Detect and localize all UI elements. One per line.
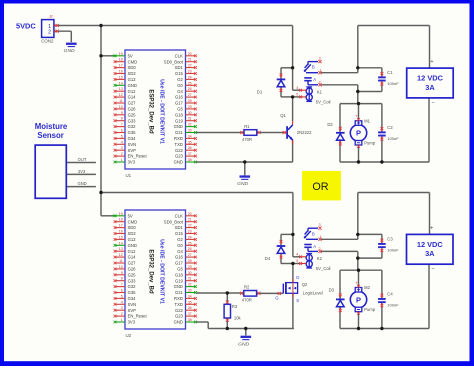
svg-text:SD1: SD1 xyxy=(175,65,184,70)
svg-text:G16: G16 xyxy=(175,95,184,100)
svg-text:21: 21 xyxy=(188,218,192,222)
svg-text:20: 20 xyxy=(188,212,192,216)
svg-text:27: 27 xyxy=(188,253,192,257)
svg-text:11: 11 xyxy=(119,259,123,263)
svg-text:22: 22 xyxy=(188,224,192,228)
svg-text:23: 23 xyxy=(188,70,192,74)
svg-text:−: − xyxy=(432,100,435,106)
svg-text:12 VDC: 12 VDC xyxy=(417,240,444,249)
svg-text:TXD: TXD xyxy=(175,142,183,147)
svg-text:+: + xyxy=(430,225,433,231)
svg-text:38: 38 xyxy=(188,158,192,162)
svg-text:Q1: Q1 xyxy=(280,113,286,118)
svg-text:6: 6 xyxy=(121,129,123,133)
svg-text:26: 26 xyxy=(188,247,192,251)
svg-text:9: 9 xyxy=(121,111,123,115)
svg-text:G13: G13 xyxy=(128,77,137,82)
svg-text:LogicLevel: LogicLevel xyxy=(303,291,323,296)
svg-text:G16: G16 xyxy=(175,255,184,260)
svg-text:B: B xyxy=(312,231,315,236)
svg-text:21: 21 xyxy=(188,58,192,62)
svg-text:13: 13 xyxy=(119,87,123,91)
svg-text:S: S xyxy=(296,298,299,303)
svg-text:G26: G26 xyxy=(128,107,137,112)
svg-text:G0: G0 xyxy=(177,243,183,248)
svg-text:G26: G26 xyxy=(128,267,137,272)
svg-text:R2: R2 xyxy=(244,285,250,290)
svg-text:7: 7 xyxy=(121,283,123,287)
svg-text:GND: GND xyxy=(174,284,183,289)
svg-text:G23: G23 xyxy=(175,314,184,319)
svg-text:20: 20 xyxy=(188,52,192,56)
svg-text:GND: GND xyxy=(128,243,137,248)
svg-text:38: 38 xyxy=(188,318,192,322)
svg-text:R3: R3 xyxy=(232,304,238,309)
svg-text:SD0_Boot: SD0_Boot xyxy=(164,219,184,224)
svg-text:G22: G22 xyxy=(175,308,184,313)
svg-text:EN_Reset: EN_Reset xyxy=(128,154,148,159)
svg-text:Pump: Pump xyxy=(364,307,376,312)
svg-text:33: 33 xyxy=(188,289,192,293)
svg-text:3A: 3A xyxy=(425,83,435,92)
svg-text:1: 1 xyxy=(121,318,123,322)
svg-text:P: P xyxy=(356,295,361,304)
svg-text:100nF: 100nF xyxy=(387,81,399,86)
svg-text:2N2222: 2N2222 xyxy=(297,130,312,135)
svg-text:Moisture: Moisture xyxy=(35,122,68,131)
svg-text:27: 27 xyxy=(188,93,192,97)
svg-text:17: 17 xyxy=(119,224,123,228)
svg-text:G17: G17 xyxy=(175,101,184,106)
svg-text:SD0: SD0 xyxy=(128,225,137,230)
svg-text:14: 14 xyxy=(119,241,123,245)
svg-text:M1: M1 xyxy=(364,118,370,123)
svg-text:470R: 470R xyxy=(242,137,252,142)
svg-text:U1: U1 xyxy=(126,173,132,178)
svg-text:Sensor: Sensor xyxy=(37,131,63,140)
svg-text:12: 12 xyxy=(119,93,123,97)
svg-text:SD0: SD0 xyxy=(128,65,137,70)
svg-text:23: 23 xyxy=(188,230,192,234)
svg-text:3A: 3A xyxy=(425,249,435,258)
svg-text:4: 4 xyxy=(296,86,298,90)
svg-text:GND: GND xyxy=(174,124,183,129)
svg-text:C1: C1 xyxy=(387,70,393,75)
svg-text:5: 5 xyxy=(121,294,123,298)
svg-text:3: 3 xyxy=(319,223,321,227)
svg-text:4: 4 xyxy=(121,140,123,144)
svg-text:D: D xyxy=(296,275,299,280)
svg-text:36: 36 xyxy=(188,306,192,310)
svg-text:G0: G0 xyxy=(177,83,183,88)
svg-text:29: 29 xyxy=(188,105,192,109)
svg-text:G19: G19 xyxy=(175,278,184,283)
svg-text:G19: G19 xyxy=(175,118,184,123)
svg-text:31: 31 xyxy=(188,277,192,281)
svg-text:G5: G5 xyxy=(177,107,183,112)
svg-text:GND: GND xyxy=(77,181,86,186)
svg-text:100nF: 100nF xyxy=(387,248,399,253)
svg-text:SVP: SVP xyxy=(128,148,137,153)
svg-text:1: 1 xyxy=(320,68,322,72)
svg-text:16: 16 xyxy=(119,230,123,234)
svg-text:11: 11 xyxy=(119,99,123,103)
svg-text:G18: G18 xyxy=(175,272,184,277)
svg-text:G33: G33 xyxy=(128,278,137,283)
svg-text:18: 18 xyxy=(119,218,123,222)
svg-text:7: 7 xyxy=(121,123,123,127)
svg-text:G34: G34 xyxy=(128,296,137,301)
svg-text:24: 24 xyxy=(188,235,192,239)
svg-text:GND: GND xyxy=(128,83,137,88)
svg-text:K2: K2 xyxy=(317,256,323,261)
svg-text:29: 29 xyxy=(188,265,192,269)
svg-text:2: 2 xyxy=(319,247,321,251)
svg-text:33: 33 xyxy=(188,129,192,133)
svg-text:G15: G15 xyxy=(175,71,184,76)
svg-text:D4: D4 xyxy=(265,256,271,261)
svg-text:G18: G18 xyxy=(175,112,184,117)
svg-text:D3: D3 xyxy=(329,288,335,293)
svg-text:G12: G12 xyxy=(128,249,137,254)
svg-text:G2: G2 xyxy=(177,237,183,242)
svg-text:ESP32_Dev_Bd: ESP32_Dev_Bd xyxy=(148,89,154,134)
svg-text:SVN: SVN xyxy=(128,302,137,307)
svg-text:10: 10 xyxy=(119,265,123,269)
svg-text:G25: G25 xyxy=(128,272,137,277)
svg-text:OUT: OUT xyxy=(78,157,87,162)
svg-text:C3: C3 xyxy=(387,236,393,241)
svg-text:G17: G17 xyxy=(175,261,184,266)
svg-text:24: 24 xyxy=(188,75,192,79)
svg-text:3: 3 xyxy=(319,57,321,61)
svg-text:GND: GND xyxy=(174,160,183,165)
svg-text:GND: GND xyxy=(64,48,75,54)
svg-text:5V: 5V xyxy=(128,53,133,58)
svg-text:35: 35 xyxy=(188,140,192,144)
svg-text:GND: GND xyxy=(238,341,249,347)
svg-text:RXD: RXD xyxy=(174,136,183,141)
svg-text:CMD: CMD xyxy=(128,59,138,64)
svg-text:ESP32_Dev_Bd: ESP32_Dev_Bd xyxy=(148,249,154,294)
svg-text:30: 30 xyxy=(188,111,192,115)
svg-text:Q2: Q2 xyxy=(302,282,308,287)
svg-text:19: 19 xyxy=(119,212,123,216)
svg-text:5V_Coil: 5V_Coil xyxy=(316,266,331,271)
svg-text:SD0_Boot: SD0_Boot xyxy=(164,59,184,64)
svg-text:+: + xyxy=(355,280,358,285)
svg-text:14: 14 xyxy=(119,81,123,85)
svg-text:GND: GND xyxy=(174,320,183,325)
svg-text:30: 30 xyxy=(188,271,192,275)
svg-text:3: 3 xyxy=(121,306,123,310)
svg-text:G2: G2 xyxy=(177,77,183,82)
svg-text:100nF: 100nF xyxy=(387,303,399,308)
svg-text:G22: G22 xyxy=(175,148,184,153)
svg-text:SVP: SVP xyxy=(128,308,137,313)
svg-text:K1: K1 xyxy=(317,90,323,95)
svg-text:G32: G32 xyxy=(128,284,137,289)
svg-text:5V: 5V xyxy=(128,213,133,218)
svg-text:G27: G27 xyxy=(128,261,137,266)
svg-text:A: A xyxy=(313,244,316,249)
svg-text:2: 2 xyxy=(319,80,321,84)
svg-text:3V3: 3V3 xyxy=(128,320,136,325)
svg-text:G4: G4 xyxy=(177,249,183,254)
svg-text:2: 2 xyxy=(121,312,123,316)
svg-text:37: 37 xyxy=(188,152,192,156)
svg-text:3: 3 xyxy=(121,146,123,150)
svg-text:5: 5 xyxy=(296,259,298,263)
svg-text:15: 15 xyxy=(119,235,123,239)
svg-text:34: 34 xyxy=(188,294,192,298)
svg-text:5: 5 xyxy=(296,93,298,97)
svg-text:G15: G15 xyxy=(175,231,184,236)
svg-text:J1: J1 xyxy=(48,15,53,19)
svg-text:13: 13 xyxy=(119,247,123,251)
svg-text:10: 10 xyxy=(119,105,123,109)
svg-text:G13: G13 xyxy=(128,237,137,242)
svg-text:G14: G14 xyxy=(128,95,137,100)
svg-text:G12: G12 xyxy=(128,89,137,94)
svg-text:28: 28 xyxy=(188,259,192,263)
svg-text:1: 1 xyxy=(121,158,123,162)
svg-text:CLK: CLK xyxy=(175,53,183,58)
svg-text:2: 2 xyxy=(48,30,51,36)
svg-text:G32: G32 xyxy=(128,124,137,129)
svg-text:P: P xyxy=(356,129,361,138)
svg-text:5: 5 xyxy=(121,134,123,138)
svg-text:36: 36 xyxy=(188,146,192,150)
svg-text:32: 32 xyxy=(188,123,192,127)
svg-text:32: 32 xyxy=(188,283,192,287)
svg-text:G5: G5 xyxy=(177,267,183,272)
svg-text:R1: R1 xyxy=(244,124,250,129)
svg-text:SVN: SVN xyxy=(128,142,137,147)
svg-text:−: − xyxy=(431,266,434,272)
svg-text:G21: G21 xyxy=(175,130,184,135)
svg-text:34: 34 xyxy=(188,134,192,138)
svg-text:4: 4 xyxy=(121,300,123,304)
svg-text:15: 15 xyxy=(119,75,123,79)
svg-text:Use IDE - DOIT DEVKIT V1: Use IDE - DOIT DEVKIT V1 xyxy=(159,79,165,144)
svg-text:470R: 470R xyxy=(242,298,252,303)
svg-text:M2: M2 xyxy=(364,285,370,290)
svg-text:G27: G27 xyxy=(128,101,137,106)
svg-text:26: 26 xyxy=(188,87,192,91)
svg-text:C4: C4 xyxy=(387,291,393,296)
svg-text:19: 19 xyxy=(119,52,123,56)
svg-text:10k: 10k xyxy=(234,316,242,321)
svg-text:SD2: SD2 xyxy=(128,71,137,76)
svg-text:22: 22 xyxy=(188,64,192,68)
svg-text:3V3: 3V3 xyxy=(128,160,136,165)
svg-text:G4: G4 xyxy=(177,89,183,94)
svg-text:35: 35 xyxy=(188,300,192,304)
svg-text:CON2: CON2 xyxy=(41,39,54,44)
svg-text:G35: G35 xyxy=(128,290,137,295)
svg-text:Use IDE - DOIT DEVKIT V1: Use IDE - DOIT DEVKIT V1 xyxy=(159,239,165,304)
svg-text:12 VDC: 12 VDC xyxy=(417,74,444,83)
svg-text:G: G xyxy=(275,295,279,300)
svg-text:D2: D2 xyxy=(327,122,333,127)
svg-text:28: 28 xyxy=(188,99,192,103)
svg-text:100nF: 100nF xyxy=(387,136,399,141)
svg-text:12: 12 xyxy=(119,253,123,257)
svg-text:31: 31 xyxy=(188,117,192,121)
svg-text:G25: G25 xyxy=(128,112,137,117)
svg-text:G33: G33 xyxy=(128,118,137,123)
svg-text:G35: G35 xyxy=(128,130,137,135)
svg-text:37: 37 xyxy=(188,312,192,316)
svg-text:OR: OR xyxy=(312,181,328,193)
svg-text:+: + xyxy=(355,114,358,119)
svg-text:18: 18 xyxy=(119,58,123,62)
svg-text:5V_Coil: 5V_Coil xyxy=(316,99,331,104)
svg-text:9: 9 xyxy=(121,271,123,275)
svg-text:SD2: SD2 xyxy=(128,231,137,236)
svg-text:U2: U2 xyxy=(126,333,132,338)
svg-text:1: 1 xyxy=(320,235,322,239)
svg-text:CLK: CLK xyxy=(175,213,183,218)
svg-text:GND: GND xyxy=(237,181,248,187)
svg-text:+: + xyxy=(430,59,433,65)
svg-text:CMD: CMD xyxy=(128,219,138,224)
svg-text:6: 6 xyxy=(121,289,123,293)
svg-text:25: 25 xyxy=(188,81,192,85)
svg-text:G14: G14 xyxy=(128,255,137,260)
svg-text:4: 4 xyxy=(296,252,298,256)
svg-text:25: 25 xyxy=(188,241,192,245)
svg-text:8: 8 xyxy=(121,117,123,121)
svg-text:5VDC: 5VDC xyxy=(16,21,36,30)
svg-text:D1: D1 xyxy=(257,89,263,94)
svg-text:G21: G21 xyxy=(175,290,184,295)
svg-text:B: B xyxy=(312,65,315,70)
svg-text:3V3: 3V3 xyxy=(78,169,86,174)
svg-text:SD1: SD1 xyxy=(175,225,184,230)
svg-text:Pump: Pump xyxy=(364,141,376,146)
svg-text:A: A xyxy=(313,77,316,82)
svg-text:C2: C2 xyxy=(387,125,393,130)
svg-text:TXD: TXD xyxy=(175,302,183,307)
svg-text:17: 17 xyxy=(119,64,123,68)
svg-text:16: 16 xyxy=(119,70,123,74)
svg-text:EN_Reset: EN_Reset xyxy=(128,314,148,319)
svg-text:G23: G23 xyxy=(175,154,184,159)
svg-text:2: 2 xyxy=(121,152,123,156)
svg-text:G34: G34 xyxy=(128,136,137,141)
svg-text:RXD: RXD xyxy=(174,296,183,301)
svg-text:8: 8 xyxy=(121,277,123,281)
